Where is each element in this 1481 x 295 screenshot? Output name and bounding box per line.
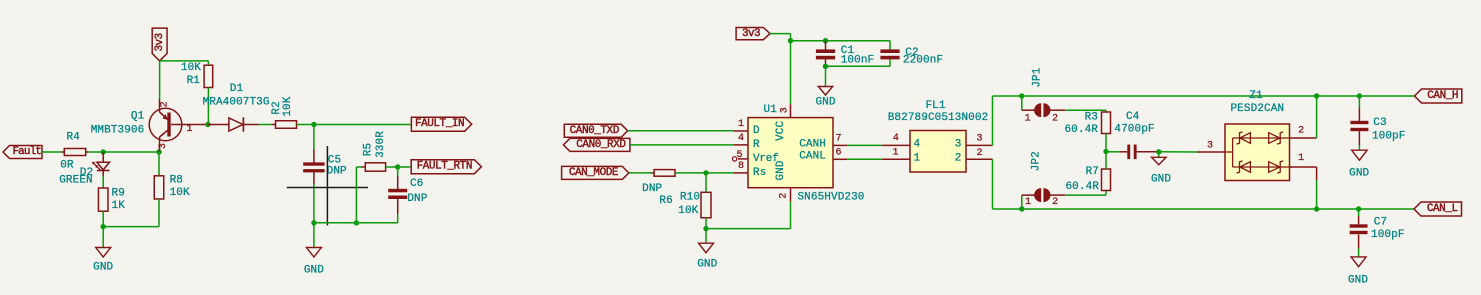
svg-text:1: 1 — [1298, 153, 1304, 164]
svg-text:1K: 1K — [112, 200, 126, 212]
svg-text:0R: 0R — [60, 160, 74, 172]
svg-text:2200nF: 2200nF — [903, 54, 943, 66]
svg-text:2: 2 — [955, 153, 962, 165]
svg-text:1: 1 — [914, 153, 921, 165]
svg-text:3: 3 — [955, 139, 962, 151]
svg-text:4: 4 — [914, 139, 921, 151]
svg-text:CANL: CANL — [799, 151, 826, 163]
svg-text:R: R — [753, 139, 760, 151]
svg-text:3v3: 3v3 — [154, 33, 166, 51]
svg-text:R1: R1 — [187, 75, 201, 87]
svg-text:R4: R4 — [66, 132, 80, 144]
svg-text:2: 2 — [1052, 114, 1058, 125]
svg-text:1: 1 — [187, 124, 193, 135]
svg-text:4: 4 — [738, 133, 744, 144]
svg-text:R9: R9 — [112, 188, 125, 200]
svg-text:R5: R5 — [362, 143, 374, 156]
svg-text:JP2: JP2 — [1031, 151, 1043, 171]
svg-text:FL1: FL1 — [925, 100, 945, 112]
svg-text:1: 1 — [1025, 197, 1031, 208]
svg-text:CAN_L: CAN_L — [1427, 203, 1458, 215]
svg-text:MMBT3906: MMBT3906 — [91, 125, 145, 137]
svg-text:5: 5 — [736, 150, 742, 161]
svg-text:4: 4 — [893, 133, 899, 144]
svg-text:D: D — [753, 125, 760, 137]
svg-text:10K: 10K — [170, 187, 190, 199]
svg-text:C6: C6 — [410, 178, 423, 190]
svg-text:CAN_H: CAN_H — [1427, 90, 1458, 102]
svg-text:8: 8 — [738, 161, 744, 172]
svg-text:Rs: Rs — [753, 167, 766, 179]
svg-text:Z1: Z1 — [1249, 90, 1263, 102]
svg-text:100pF: 100pF — [1372, 131, 1406, 143]
svg-text:R3: R3 — [1085, 112, 1098, 124]
svg-text:R7: R7 — [1086, 166, 1099, 178]
svg-text:2: 2 — [1052, 197, 1058, 208]
svg-text:Q1: Q1 — [131, 111, 145, 123]
svg-text:CAN0_RXD: CAN0_RXD — [576, 139, 626, 151]
svg-text:GREEN: GREEN — [59, 174, 93, 186]
svg-text:R8: R8 — [170, 175, 183, 187]
svg-text:DNP: DNP — [327, 165, 347, 177]
svg-text:7: 7 — [835, 134, 841, 145]
svg-text:DNP: DNP — [642, 183, 662, 195]
svg-text:GND: GND — [1348, 275, 1368, 287]
svg-text:3: 3 — [1207, 141, 1213, 152]
svg-text:FAULT_IN: FAULT_IN — [415, 118, 464, 130]
svg-text:Fault: Fault — [12, 146, 41, 158]
svg-text:2: 2 — [976, 148, 982, 159]
svg-text:JP1: JP1 — [1032, 67, 1044, 87]
svg-text:100nF: 100nF — [841, 54, 875, 66]
svg-text:Vref: Vref — [753, 153, 779, 165]
svg-text:4700pF: 4700pF — [1114, 124, 1154, 136]
svg-text:3: 3 — [158, 143, 169, 149]
svg-text:C4: C4 — [1126, 111, 1140, 123]
svg-text:GND: GND — [697, 259, 717, 271]
svg-text:FAULT_RTN: FAULT_RTN — [417, 161, 472, 173]
svg-text:3v3: 3v3 — [742, 28, 760, 40]
svg-text:3: 3 — [779, 107, 790, 113]
svg-text:60.4R: 60.4R — [1064, 124, 1098, 136]
svg-text:VCC: VCC — [775, 121, 787, 141]
svg-text:2: 2 — [159, 101, 170, 107]
svg-text:1: 1 — [738, 119, 744, 130]
svg-text:C7: C7 — [1374, 217, 1387, 229]
svg-text:2: 2 — [778, 193, 789, 199]
svg-text:10K: 10K — [181, 62, 201, 74]
svg-text:CAN0_TXD: CAN0_TXD — [570, 125, 620, 137]
svg-text:CAN_MODE: CAN_MODE — [569, 167, 619, 179]
svg-text:B82789C0513N002: B82789C0513N002 — [888, 112, 989, 124]
svg-text:10K: 10K — [282, 96, 294, 116]
svg-text:SN65HVD230: SN65HVD230 — [797, 191, 864, 203]
svg-text:100pF: 100pF — [1371, 229, 1405, 241]
svg-text:1: 1 — [893, 147, 899, 158]
svg-text:GND: GND — [1349, 168, 1369, 180]
svg-text:60.4R: 60.4R — [1065, 181, 1099, 193]
svg-text:R10: R10 — [680, 192, 700, 204]
svg-text:330R: 330R — [375, 131, 387, 158]
svg-text:GND: GND — [93, 262, 113, 274]
svg-text:3: 3 — [976, 134, 982, 145]
svg-text:GND: GND — [815, 97, 835, 109]
svg-text:6: 6 — [835, 148, 841, 159]
svg-text:R6: R6 — [659, 195, 672, 207]
svg-text:DNP: DNP — [407, 193, 427, 205]
svg-text:CANH: CANH — [799, 138, 826, 150]
svg-text:GND: GND — [304, 265, 324, 277]
svg-text:D1: D1 — [230, 83, 244, 95]
svg-text:1: 1 — [1025, 114, 1031, 125]
svg-text:MRA4007T3G: MRA4007T3G — [203, 97, 270, 109]
svg-text:GND: GND — [1151, 174, 1171, 186]
svg-text:10K: 10K — [678, 205, 698, 217]
svg-text:PESD2CAN: PESD2CAN — [1230, 103, 1284, 115]
svg-text:2: 2 — [1298, 126, 1304, 137]
svg-text:C3: C3 — [1373, 117, 1386, 129]
svg-text:U1: U1 — [763, 104, 777, 116]
